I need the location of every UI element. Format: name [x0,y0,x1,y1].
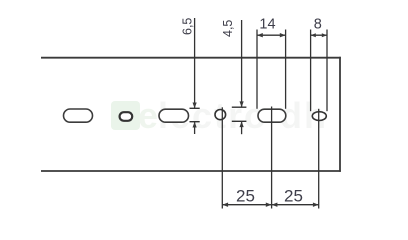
centerline hole 4 [221,107,223,208]
svg-text:25: 25 [236,187,255,206]
centerline hole 6 [318,109,320,209]
dim 6.5 line lower [194,122,196,134]
slot 3 [159,109,189,122]
centerline slot 5 [271,107,273,209]
dim 8 ext right [326,30,328,112]
hole 4 [215,110,226,120]
svg-text:6,5: 6,5 [180,18,194,35]
dim 6.5 tick top [190,107,200,109]
dim 4.5 tick top [232,106,247,108]
slot 1 [64,109,93,122]
dim 8 ext left [310,30,312,112]
rail top line [41,57,341,59]
dim 14 arrow right [280,33,286,37]
dim 25 arrows middle [266,203,278,207]
dim 4.5 arrow up [240,121,244,127]
dim 6.5 arrow up [193,122,197,128]
svg-text:8: 8 [314,17,322,33]
dim 14 line [257,34,286,36]
dim 8 arrow right [322,33,327,37]
hole 6 [312,112,326,121]
dim 4.5 arrow down [240,101,244,107]
svg-text:25: 25 [284,187,303,206]
dim 4.5 tick bottom [232,120,247,122]
dim 25 arrow left [222,203,228,207]
slot 5 [258,109,286,122]
dim 8 line [311,34,327,36]
rail bottom line [41,170,341,172]
dim 25 arrow right [313,203,319,207]
dim 6.5 arrow down [193,103,197,109]
rail right edge [339,57,341,172]
svg-text:4,5: 4,5 [221,20,235,37]
watermark green square [111,101,140,130]
dim 25-25 line [222,204,318,206]
dim 4.5 line lower [241,121,243,134]
svg-text:e: e [138,95,158,136]
svg-text:14: 14 [259,17,275,33]
dim 4.5 line upper [241,20,243,107]
hole 2 [120,112,133,121]
dim 14 ext left [256,30,258,109]
dim 6.5 tick bottom [190,121,200,123]
dim 14 arrow left [257,33,263,37]
dim 8 arrow left [311,33,316,37]
dim 6.5 line upper [194,18,196,108]
dim 14 ext right [285,30,287,109]
